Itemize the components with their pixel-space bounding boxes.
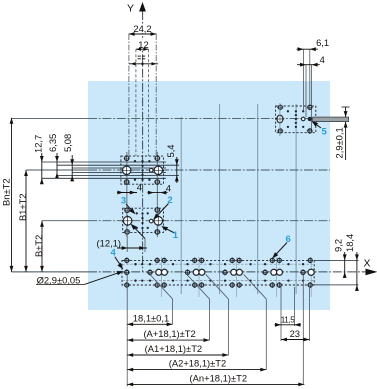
dashed extension x=135.9: [135, 49, 137, 156]
middle cluster small hole: [149, 219, 153, 223]
svg-text:2,9±0,1: 2,9±0,1: [333, 127, 344, 158]
bottom row cell 4 clamp holes: [236, 257, 238, 297]
top cluster small hole: [149, 169, 153, 173]
svg-text:Ø2,9±0,05: Ø2,9±0,05: [37, 275, 81, 286]
contact rails left of top cluster: [42, 161, 166, 163]
svg-text:Y: Y: [127, 2, 134, 14]
svg-text:5,4: 5,4: [165, 144, 176, 157]
grid vertical x=296.1: [295, 104, 297, 294]
svg-text:5,08: 5,08: [62, 134, 73, 152]
feature column x=157.3: [156, 152, 158, 237]
svg-text:Bn±T2: Bn±T2: [1, 178, 12, 206]
top cluster pin dots: [134, 160, 136, 162]
jog to extension x=172.6: [150, 275, 173, 300]
top cluster outline (dashed): [121, 156, 164, 184]
label 1 leader: [163, 227, 175, 233]
svg-text:18,4: 18,4: [344, 234, 355, 252]
svg-text:(A2+18,1)±T2: (A2+18,1)±T2: [169, 358, 227, 369]
feature column x=126.9: [126, 152, 128, 237]
X axis: [12, 271, 89, 273]
extension column x=128.9: [128, 34, 130, 156]
middle cluster corner holes: [125, 208, 129, 212]
centerline top cluster y=170: [26, 169, 88, 171]
bottom row cell 2 position hole: [148, 270, 152, 274]
row top/bottom lines extended right: [314, 259, 358, 261]
bottom row outline (dashed): [122, 260, 314, 285]
top cluster large holes: [123, 166, 131, 174]
bottom row last cell single clamp hole: [310, 257, 312, 297]
label 2 leader: [155, 204, 169, 219]
label 6 leader: [274, 243, 288, 258]
bottom row cell 4 position hole: [223, 270, 227, 274]
label 4 leader: [115, 257, 122, 267]
label 3 leader: [126, 204, 134, 213]
dimension 2,9±0,1: [342, 106, 350, 108]
extension to (An+18,1): [302, 275, 304, 384]
svg-text:(A+18,1)±T2: (A+18,1)±T2: [143, 328, 195, 339]
jog to extension x=228.4: [206, 275, 229, 300]
svg-text:9,2: 9,2: [333, 239, 344, 252]
symmetry marks = =: [138, 55, 141, 57]
middle cluster pin dots: [141, 212, 143, 214]
svg-text:B1±T2: B1±T2: [17, 193, 28, 221]
svg-text:3: 3: [121, 195, 126, 206]
svg-text:4: 4: [166, 183, 171, 194]
bottom row cell 5 position hole: [263, 270, 267, 274]
extension lines 11,5 / 23: [280, 287, 282, 341]
top cluster corner holes: [125, 156, 129, 160]
chain reference line: [126, 275, 128, 387]
svg-text:4: 4: [137, 182, 142, 193]
centerline row5 y=118.4: [12, 117, 89, 119]
svg-text:(12,1): (12,1): [97, 237, 122, 248]
grid vertical x=219.6: [219, 104, 221, 294]
bottom row cell 2 clamp holes: [161, 257, 163, 297]
jog to extension x=209.5: [187, 275, 210, 300]
svg-text:11,5: 11,5: [281, 316, 296, 325]
svg-text:24,2: 24,2: [133, 23, 151, 34]
middle cluster large holes: [123, 217, 132, 226]
grid vertical x=181.2: [180, 117, 182, 294]
cluster 5 extension lines: [303, 49, 305, 112]
bottom row cell 3 position hole: [185, 270, 189, 274]
label 5 leader: [313, 122, 322, 128]
jog to extension x=266.3: [244, 275, 267, 300]
locating pin (grey bar): [313, 117, 349, 122]
svg-text:12,7: 12,7: [32, 135, 43, 153]
svg-text:4: 4: [320, 54, 325, 65]
svg-text:(A1+18,1)±T2: (A1+18,1)±T2: [145, 343, 203, 354]
dimension 24,2: [131, 24, 154, 34]
svg-text:2: 2: [167, 195, 172, 206]
dimension 12: [138, 40, 149, 49]
bottom row cell 3 clamp holes: [198, 257, 200, 297]
svg-text:18,1±0,1: 18,1±0,1: [133, 312, 169, 323]
bottom row position hole (first): [125, 258, 129, 262]
svg-text:1: 1: [173, 230, 179, 241]
svg-text:23: 23: [290, 328, 300, 339]
svg-text:5: 5: [322, 126, 328, 137]
svg-text:6,1: 6,1: [316, 37, 329, 48]
svg-text:X: X: [363, 258, 370, 270]
cluster 5 outline (dashed): [276, 106, 316, 133]
symmetric dimension line: [129, 63, 158, 65]
svg-text:(An+18,1)±T2: (An+18,1)±T2: [190, 372, 248, 383]
bottom row cell 6 position hole: [301, 270, 305, 274]
cluster 5 filled hole: [308, 117, 312, 121]
centerline middle cluster y=220.7: [42, 220, 88, 222]
leader from large hole to (12,1) extension: [132, 225, 145, 239]
svg-text:6,35: 6,35: [47, 134, 58, 152]
cluster 5 small hole: [301, 117, 305, 121]
extension column x=156.2: [155, 34, 157, 156]
bottom row cell 5 clamp holes: [276, 257, 278, 297]
dashed extension x=148.5: [148, 49, 150, 156]
cluster 5 pin dots: [287, 110, 289, 112]
bottom row pin rails: [122, 263, 314, 265]
cluster 5 oval hole: [277, 115, 283, 123]
Y axis: [142, 11, 144, 272]
middle cluster outline (dashed): [123, 208, 164, 232]
mounting surface (blue square): [88, 81, 330, 310]
grid vertical x=257.7: [257, 104, 259, 294]
svg-text:4: 4: [111, 248, 117, 259]
cluster 5 corner holes: [278, 105, 282, 109]
